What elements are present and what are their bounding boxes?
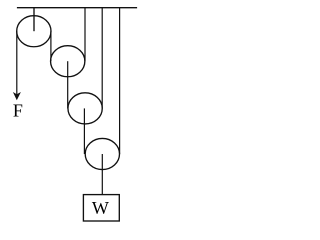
ceiling beam [17, 7, 137, 9]
pulley P2 (movable) [51, 46, 85, 77]
svg-text:W: W [92, 198, 109, 218]
load box W [83, 195, 119, 221]
wire rope2 left strand from P2 axle to P3 [67, 61, 69, 108]
wire rope3 right strand P4 to ceiling [119, 8, 121, 154]
wire rope1 right strand P2 to ceiling [84, 8, 86, 62]
support link P1 to ceiling [33, 8, 35, 32]
wire rope2 right strand P3 to ceiling [101, 8, 103, 109]
wire rope1 left strand to F [16, 31, 18, 95]
arrowhead of force F [13, 92, 21, 100]
pulley P4 (movable) [85, 138, 119, 169]
svg-text:F: F [13, 101, 23, 121]
pulley P1 (fixed) [17, 16, 51, 47]
pulley P3 (movable) [68, 93, 102, 124]
wire rope4 from P4 axle down to load [101, 154, 103, 195]
wire rope3 left strand from P3 axle to P4 [83, 108, 85, 154]
wire rope1 middle strand P1 to P2 [50, 31, 52, 61]
